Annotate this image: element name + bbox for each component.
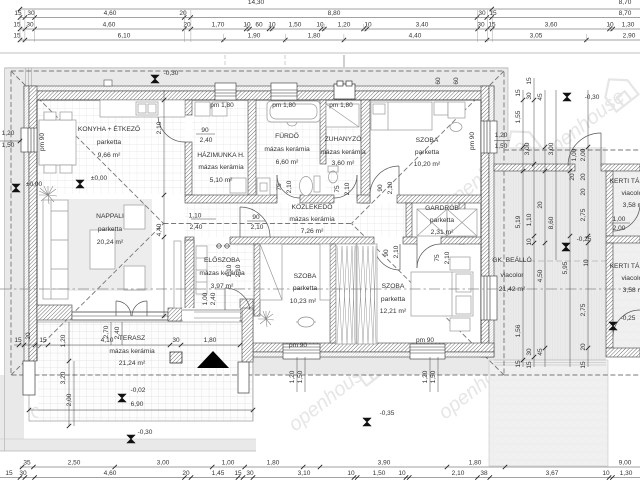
furdo door [276, 175, 278, 199]
svg-text:2,00: 2,00 [613, 225, 626, 232]
gardrob shelf 2 [447, 209, 477, 236]
hip diagonal top-right [352, 71, 505, 224]
roof vents [216, 69, 223, 74]
storage middle wall [606, 236, 640, 243]
window W1 top wall [215, 83, 236, 100]
hip diagonal bottom-left [11, 224, 164, 376]
svg-text:parketta: parketta [415, 149, 439, 156]
szoba center door [399, 244, 401, 270]
storage door dim [610, 222, 630, 224]
kozlekedo tile floor [185, 203, 406, 237]
svg-text:1,00: 1,00 [613, 216, 626, 223]
svg-text:20: 20 [25, 332, 32, 340]
level marker +-0,00 nappali [76, 180, 84, 188]
svg-text:1,80: 1,80 [469, 460, 482, 467]
svg-text:-0,25: -0,25 [621, 315, 636, 322]
interior wall kitchen/hazimunka [185, 100, 192, 115]
svg-text:75: 75 [334, 185, 341, 193]
svg-text:parketta: parketta [97, 139, 121, 146]
level marker -0,30 roof top [151, 75, 159, 83]
svg-text:-0,30: -0,30 [138, 429, 153, 436]
gardrob shelf 1 [417, 209, 447, 236]
svg-text:15: 15 [14, 10, 22, 17]
svg-text:1,80: 1,80 [204, 337, 217, 344]
eloszoba/szoba wall [254, 244, 260, 316]
svg-text:38: 38 [480, 470, 488, 477]
svg-text:2,10: 2,10 [393, 245, 400, 258]
svg-text:3,58 m²: 3,58 m² [623, 202, 640, 209]
svg-text:1,00: 1,00 [222, 460, 235, 467]
chimney [334, 81, 355, 99]
window W3 bottom wall [283, 344, 320, 359]
svg-text:4,60: 4,60 [104, 10, 117, 17]
svg-text:2,00: 2,00 [66, 393, 73, 406]
svg-text:1,20: 1,20 [289, 370, 296, 383]
svg-text:1,10: 1,10 [226, 264, 233, 277]
svg-text:1,90: 1,90 [248, 33, 261, 40]
terrace vertical dims [68, 322, 70, 426]
pot szoba center [296, 317, 316, 327]
sofa [43, 200, 68, 299]
svg-text:GARDRÓB: GARDRÓB [425, 203, 459, 212]
svg-text:2,10: 2,10 [387, 181, 394, 194]
level marker -0,35 driveway [363, 418, 371, 426]
storage1 interior floor [613, 171, 640, 236]
shower tray [326, 104, 359, 127]
entrance door leaf and arc [224, 288, 226, 310]
level marker -0,30 top right [563, 93, 571, 101]
svg-text:1,50: 1,50 [373, 470, 386, 477]
window left wall nappali [21, 128, 37, 152]
svg-text:±0,00: ±0,00 [91, 175, 108, 182]
terrace east post [238, 362, 249, 393]
interior wall zuhanyzo/szoba [361, 100, 370, 203]
svg-text:3,60: 3,60 [545, 22, 558, 29]
svg-text:ZUHANYZÓ: ZUHANYZÓ [325, 134, 362, 143]
svg-text:viacolor: viacolor [500, 272, 524, 279]
kozlekedo door dim 90/2,10 [247, 220, 265, 222]
svg-text:45: 45 [537, 93, 544, 101]
halo band below bottom-right wall [253, 357, 494, 375]
svg-text:2,75: 2,75 [580, 208, 587, 221]
window right wall szoba2 [481, 276, 497, 320]
svg-text:-0,02: -0,02 [131, 387, 146, 394]
level marker -0,25 carport [562, 243, 570, 251]
svg-text:6,60 m²: 6,60 m² [276, 159, 299, 166]
dimension row top 1 [20, 17, 640, 19]
gardrob west wall [406, 203, 412, 237]
nappali-terrace wall west part [37, 305, 72, 320]
hazimunka tile floor [192, 100, 248, 195]
furdo tile floor [256, 100, 320, 195]
top outer wall [24, 86, 494, 91]
kozlekedo-eloszoba door [239, 207, 241, 237]
svg-text:TERASZ: TERASZ [119, 335, 145, 342]
svg-text:30: 30 [526, 348, 533, 356]
hip diagonal bottom-right [352, 224, 505, 376]
storage1 door arc [613, 204, 640, 231]
toilet zuhanyzo [328, 166, 338, 172]
svg-text:2,10: 2,10 [444, 251, 451, 264]
bottom-right outer wall [253, 343, 494, 352]
svg-text:2,10: 2,10 [251, 224, 264, 231]
section line [0, 288, 640, 290]
svg-text:pm 90: pm 90 [39, 133, 46, 151]
svg-text:FÜRDŐ: FÜRDŐ [275, 131, 299, 140]
svg-text:parketta: parketta [381, 296, 405, 303]
svg-text:1,20: 1,20 [60, 334, 67, 347]
svg-text:1,20: 1,20 [495, 132, 508, 139]
fence wall north of carport [494, 164, 575, 171]
svg-text:KERTI TÁROLÓ: KERTI TÁROLÓ [610, 176, 640, 185]
level marker +-0,00 left [12, 184, 20, 192]
svg-text:KERTI TÁROLÓ: KERTI TÁROLÓ [610, 261, 640, 270]
wall south of kozlekedo [185, 237, 194, 244]
svg-text:8,60: 8,60 [548, 216, 555, 229]
svg-text:mázas kerámia: mázas kerámia [109, 348, 155, 355]
terrace pillar [170, 352, 182, 363]
roof eave bottom extension [504, 374, 640, 376]
dimension row top 3 [20, 39, 640, 41]
svg-text:10: 10 [526, 238, 533, 246]
wall piece east of glazing [168, 308, 182, 321]
svg-text:2,40: 2,40 [114, 326, 121, 339]
svg-text:4,40: 4,40 [156, 223, 163, 236]
svg-text:6,10: 6,10 [118, 33, 131, 40]
dining table [39, 120, 76, 165]
svg-text:10,23 m²: 10,23 m² [290, 298, 317, 305]
svg-text:ELŐSZOBA: ELŐSZOBA [204, 255, 241, 264]
svg-text:30: 30 [526, 92, 533, 100]
svg-text:SZOBA: SZOBA [382, 283, 405, 290]
eloszoba west wall [185, 240, 194, 316]
window W4 bottom wall [410, 344, 445, 359]
cabinet szoba right small [320, 244, 330, 300]
svg-text:15: 15 [5, 470, 13, 477]
svg-text:4,50: 4,50 [537, 269, 544, 282]
svg-text:pm 1,80: pm 1,80 [210, 102, 234, 109]
svg-text:2,70: 2,70 [103, 325, 110, 338]
dimension row bottom 1 [20, 466, 640, 468]
interior wall hazimunka/furdo [248, 100, 256, 203]
svg-text:20: 20 [569, 173, 576, 181]
vent stub [104, 80, 112, 86]
svg-text:8,70: 8,70 [619, 10, 632, 17]
svg-text:3,97 m²: 3,97 m² [211, 283, 234, 290]
svg-text:1,80: 1,80 [267, 460, 280, 467]
svg-text:4,40: 4,40 [409, 33, 422, 40]
svg-text:1,20: 1,20 [2, 130, 15, 137]
svg-text:mázas kerámia: mázas kerámia [198, 164, 244, 171]
svg-text:20,24 m²: 20,24 m² [97, 239, 124, 246]
svg-text:1,50: 1,50 [2, 142, 15, 149]
tv board [174, 241, 181, 308]
svg-text:10,20 m²: 10,20 m² [414, 161, 441, 168]
gardrob door [416, 244, 418, 268]
szoba/szoba wall [330, 244, 336, 343]
roof eave outline [11, 71, 504, 375]
svg-text:75: 75 [434, 254, 441, 262]
roof ridge line [164, 223, 352, 225]
bathtub [267, 101, 320, 122]
wall south of hazimunka-furdo [185, 195, 277, 203]
svg-text:3,00: 3,00 [548, 142, 555, 155]
svg-text:pm 90: pm 90 [289, 342, 307, 349]
svg-text:90: 90 [201, 127, 209, 134]
window right wall szoba [481, 121, 497, 153]
svg-text:1,50: 1,50 [430, 370, 437, 383]
svg-text:pm 1,80: pm 1,80 [272, 102, 296, 109]
bed szoba bottom-right [411, 272, 473, 316]
terrace tile floor [38, 322, 253, 421]
svg-text:2,10: 2,10 [156, 121, 163, 134]
svg-text:20: 20 [537, 201, 544, 209]
svg-text:KONYHA + ÉTKEZŐ: KONYHA + ÉTKEZŐ [78, 124, 140, 133]
halo strip left of terrace [0, 375, 5, 447]
svg-text:2,40: 2,40 [210, 292, 217, 305]
svg-text:mázas kerámia: mázas kerámia [320, 149, 366, 156]
svg-text:21,24 m²: 21,24 m² [119, 360, 146, 367]
svg-text:14,30: 14,30 [248, 0, 265, 6]
svg-text:1,45: 1,45 [212, 470, 225, 477]
svg-text:pm 90: pm 90 [469, 132, 476, 150]
terrace 6,90 dim [29, 409, 253, 411]
svg-text:30: 30 [172, 337, 180, 344]
halo outline [5, 68, 509, 451]
svg-text:parketta: parketta [293, 285, 317, 292]
svg-text:parketta: parketta [98, 226, 122, 233]
kitchen tile floor [37, 100, 185, 194]
svg-text:35: 35 [23, 460, 31, 467]
svg-text:1,10: 1,10 [526, 213, 533, 226]
svg-text:1,50: 1,50 [289, 22, 302, 29]
driveway [489, 360, 608, 466]
svg-text:4,60: 4,60 [104, 470, 117, 477]
svg-text:3,90: 3,90 [378, 460, 391, 467]
halo bottom band [0, 439, 256, 451]
svg-text:1,00: 1,00 [202, 292, 209, 305]
gate axis dashed [520, 260, 606, 262]
svg-text:1,10: 1,10 [189, 213, 202, 220]
svg-text:30: 30 [26, 22, 34, 29]
svg-text:60: 60 [453, 77, 460, 85]
svg-text:3,00: 3,00 [157, 460, 170, 467]
coffee table [90, 230, 115, 269]
nappali french doors [115, 301, 117, 316]
terrace glazing opening [182, 308, 240, 320]
hazimunka machines [195, 102, 210, 116]
svg-text:1,20: 1,20 [422, 370, 429, 383]
bed szoba top-right [371, 102, 432, 130]
svg-text:viacolor: viacolor [621, 275, 640, 282]
svg-text:1,30: 1,30 [622, 22, 635, 29]
sink furdo [257, 178, 270, 195]
svg-text:10: 10 [364, 22, 372, 29]
nappali door vertical dims [110, 322, 112, 345]
wardrobe szoba bottom-right 2 [357, 244, 377, 344]
storage1 west wall [606, 171, 613, 236]
hip diagonal top-left [11, 71, 164, 224]
left wall window dim [0, 140, 22, 142]
svg-text:1,80: 1,80 [308, 33, 321, 40]
svg-text:1,50: 1,50 [297, 370, 304, 383]
svg-text:20: 20 [580, 173, 587, 181]
svg-text:15: 15 [515, 89, 522, 97]
terrace glazing sill [72, 312, 168, 320]
zuhanyzo tile floor [326, 100, 361, 195]
svg-text:20: 20 [580, 188, 587, 196]
svg-text:pm 1,80: pm 1,80 [329, 102, 353, 109]
svg-text:3,10: 3,10 [298, 470, 311, 477]
svg-text:3,05: 3,05 [530, 33, 543, 40]
svg-text:12,21 m²: 12,21 m² [380, 308, 407, 315]
roof overhang halo top band [5, 67, 508, 86]
svg-text:HÁZIMUNKA H.: HÁZIMUNKA H. [197, 150, 245, 159]
storage2 west wall [606, 243, 613, 348]
wardrobe szoba center [260, 244, 282, 300]
level marker -0,25 storage2 [609, 322, 617, 330]
svg-text:7,26 m²: 7,26 m² [301, 228, 324, 235]
storage2 interior floor [613, 243, 640, 348]
svg-text:NAPPALI: NAPPALI [96, 213, 124, 220]
svg-text:1,00: 1,00 [571, 148, 578, 161]
eloszoba tile floor [185, 244, 254, 316]
separator line [0, 52, 640, 54]
svg-text:20: 20 [182, 470, 190, 477]
dimension row bottom 2 [0, 477, 640, 479]
svg-text:10: 10 [602, 470, 610, 477]
svg-text:-0,35: -0,35 [380, 410, 395, 417]
svg-text:90: 90 [377, 184, 384, 192]
svg-text:mázas kerámia: mázas kerámia [264, 146, 310, 153]
svg-text:8,80: 8,80 [328, 10, 341, 17]
svg-text:2,00: 2,00 [580, 148, 587, 161]
interior vertical dim line kitchen [163, 90, 165, 318]
carport curb lines [494, 360, 606, 365]
roof overhang halo left band [5, 67, 24, 447]
wardrobe szoba bottom-right 1 [336, 244, 356, 344]
storage2 door arc [613, 310, 640, 337]
svg-text:9,66 m²: 9,66 m² [98, 152, 121, 159]
svg-text:60: 60 [435, 77, 442, 85]
svg-text:2,10: 2,10 [235, 264, 242, 277]
svg-text:3,58 m²: 3,58 m² [623, 287, 640, 294]
svg-text:3,20: 3,20 [60, 371, 67, 384]
svg-text:pm 90: pm 90 [416, 337, 434, 344]
right outer wall [481, 86, 489, 357]
svg-text:30: 30 [478, 10, 486, 17]
svg-text:1,20: 1,20 [338, 22, 351, 29]
kitchen counter [100, 100, 185, 117]
svg-text:10: 10 [347, 470, 355, 477]
level marker -0,30 below terrace [127, 435, 135, 443]
svg-text:5,95: 5,95 [562, 261, 569, 274]
svg-text:-0,30: -0,30 [164, 70, 179, 77]
svg-text:1,50: 1,50 [495, 143, 508, 150]
svg-text:2,40: 2,40 [200, 137, 213, 144]
svg-text:2,10: 2,10 [452, 470, 465, 477]
terrace dim line [14, 344, 240, 346]
terrace jog wall [242, 308, 253, 362]
svg-text:5,10 m²: 5,10 m² [210, 177, 233, 184]
svg-text:1,56: 1,56 [515, 324, 522, 337]
svg-text:1,30: 1,30 [620, 470, 633, 477]
svg-text:SZOBA: SZOBA [416, 137, 439, 144]
terrace west post [23, 361, 35, 395]
svg-text:90: 90 [252, 214, 260, 221]
svg-text:2,10: 2,10 [286, 180, 293, 193]
kitchen door [158, 114, 185, 116]
svg-text:SZOBA: SZOBA [294, 273, 317, 280]
svg-text:-0,30: -0,30 [585, 94, 600, 101]
svg-text:6,90: 6,90 [131, 401, 144, 408]
svg-text:30: 30 [477, 22, 485, 29]
roof eave carport top [504, 149, 640, 151]
svg-text:10: 10 [398, 470, 406, 477]
entrance threshold [194, 311, 240, 313]
svg-text:75: 75 [276, 183, 283, 191]
svg-text:2,75: 2,75 [580, 303, 587, 316]
armchair 1 [124, 205, 145, 229]
svg-text:30: 30 [19, 470, 27, 477]
halo right band [494, 86, 508, 147]
svg-text:1,70: 1,70 [212, 22, 225, 29]
kitchen door dim 90/2,40 [196, 133, 215, 135]
level marker -0,02 terrace [118, 394, 126, 402]
svg-text:2,90: 2,90 [623, 33, 636, 40]
gardrob east wall [459, 203, 465, 244]
svg-text:3,67: 3,67 [546, 470, 559, 477]
svg-text:15: 15 [526, 361, 533, 369]
carport vertical dim lines [522, 90, 524, 367]
svg-text:90: 90 [383, 249, 390, 257]
svg-text:60: 60 [255, 22, 263, 29]
svg-text:30: 30 [246, 470, 254, 477]
svg-text:45: 45 [537, 348, 544, 356]
carport paved area [494, 147, 606, 360]
window W4 dims [429, 357, 431, 392]
nappali carpet [68, 199, 152, 291]
svg-text:21,42 m²: 21,42 m² [499, 286, 526, 293]
svg-text:4,60: 4,60 [103, 22, 116, 29]
svg-text:3,00: 3,00 [524, 142, 531, 155]
plant nappali [39, 186, 57, 204]
svg-text:20: 20 [580, 343, 587, 351]
svg-text:20: 20 [179, 10, 187, 17]
svg-text:2,31 m²: 2,31 m² [431, 229, 454, 236]
svg-text:15: 15 [526, 77, 533, 85]
svg-text:3,40: 3,40 [416, 22, 429, 29]
svg-text:10: 10 [316, 22, 324, 29]
plant szoba center [258, 311, 274, 327]
eloszoba cabinet [196, 246, 207, 294]
toilet furdo [314, 176, 320, 192]
eloszoba opening dim 1,10/2,40 [191, 218, 216, 220]
svg-text:viacolor: viacolor [621, 190, 640, 197]
storage2 south wall [606, 348, 640, 357]
svg-text:2,10: 2,10 [344, 182, 351, 195]
svg-text:30: 30 [27, 10, 35, 17]
window W2 top wall [271, 83, 297, 100]
carport gate leaf and arc [600, 133, 602, 166]
left outer wall [24, 86, 29, 361]
wall extension lines top-left [26, 68, 32, 86]
svg-text:2,50: 2,50 [68, 460, 81, 467]
svg-text:5,19: 5,19 [515, 215, 522, 228]
svg-text:KÖZLEKEDŐ: KÖZLEKEDŐ [292, 202, 333, 211]
svg-text:15: 15 [489, 10, 497, 17]
svg-text:15: 15 [39, 337, 47, 344]
